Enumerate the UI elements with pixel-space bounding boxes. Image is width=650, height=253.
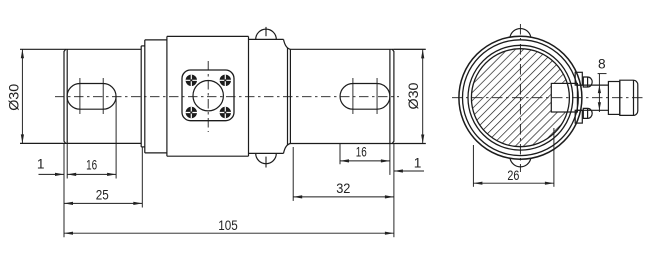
- dim 8 vertical line: [598, 74, 600, 112]
- connector flange plate: [551, 83, 577, 112]
- dim 8 leader tick: [598, 73, 607, 75]
- phi30 right ext bottom: [394, 143, 426, 145]
- ext line x390.6 below: [389, 144, 391, 175]
- phi30 right dim line: [422, 49, 424, 143]
- dim 32 line: [293, 196, 394, 198]
- right cap line: [389, 49, 391, 143]
- hatch boundary circle: [471, 49, 569, 147]
- screw C bottom-left: [186, 107, 197, 118]
- knob chamfer line: [633, 80, 635, 115]
- top right fillet: [284, 39, 291, 49]
- end knob: [620, 80, 638, 115]
- ext line left x473.4: [472, 145, 474, 187]
- dim 16 left line: [67, 173, 116, 175]
- ext line x142.3: [141, 147, 143, 208]
- left shaft bottom line (with phi30 extension): [20, 142, 141, 144]
- svg-text:1: 1: [414, 156, 422, 171]
- svg-text:105: 105: [218, 218, 238, 233]
- side view vertical centerline through plate: [207, 61, 209, 132]
- dim 32 arrows: [293, 195, 302, 198]
- bottom bolt head: [575, 108, 592, 123]
- dim 26 line: [473, 182, 554, 184]
- dim 105 line: [64, 232, 394, 234]
- svg-text:26: 26: [507, 168, 519, 183]
- bottom dome: [256, 153, 277, 163]
- svg-text:1: 1: [37, 157, 45, 172]
- dim 25 line: [64, 202, 142, 204]
- dim 8: [598, 74, 607, 112]
- left ring A bottom: [141, 146, 145, 148]
- top dome slot: [265, 27, 267, 36]
- top bolt head: [575, 72, 592, 87]
- barrel top line: [577, 84, 608, 86]
- dim 1 right line: [394, 170, 424, 172]
- barrel bottom line: [577, 109, 608, 111]
- screw A top-left: [186, 75, 197, 86]
- screw B top-right: [220, 75, 231, 86]
- dim 1 left arrow: [55, 173, 64, 176]
- dim 16 right line: [340, 160, 390, 162]
- left slot hole axis line 2: [102, 78, 104, 114]
- left cap line: [66, 49, 68, 143]
- third circle: [468, 45, 573, 150]
- second circle: [463, 40, 579, 156]
- ext line x67 below: [66, 143, 68, 178]
- top tab: [510, 29, 531, 38]
- ext line x394 below: [393, 144, 395, 238]
- square mounting plate: [182, 70, 234, 121]
- svg-text:25: 25: [96, 188, 109, 203]
- nut section bottom: [249, 152, 284, 154]
- svg-text:Ø30: Ø30: [406, 82, 421, 109]
- svg-text:8: 8: [598, 56, 606, 71]
- svg-text:32: 32: [336, 181, 350, 196]
- outer circle: [459, 36, 582, 159]
- arrowheads: [21, 49, 425, 235]
- bottom bolt nub seam: [587, 108, 589, 118]
- right slot obround: [340, 84, 390, 110]
- dim 26: [473, 128, 554, 187]
- ext line x116.6: [115, 97, 117, 179]
- dim 1 left line: [39, 173, 65, 175]
- phi30 left arrows: [21, 49, 24, 58]
- side view horizontal centerline: [55, 96, 399, 98]
- left slot hole axis line 1: [79, 78, 81, 114]
- bottom tab: [510, 158, 531, 167]
- central block right vertical: [248, 36, 250, 156]
- central block bottom: [167, 155, 249, 157]
- left ring B bottom: [145, 152, 167, 154]
- dim 16 right arrows: [340, 159, 349, 162]
- right slot hole axis line 2: [376, 78, 378, 114]
- top bolt nub seam: [587, 77, 589, 87]
- ext line x293.2: [292, 147, 294, 201]
- ext line x340: [339, 144, 341, 165]
- left ring A top: [141, 45, 145, 47]
- right shaft end vertical (chamfered): [392, 49, 394, 143]
- bottom dome slot: [265, 157, 267, 168]
- nut section top: [249, 38, 284, 40]
- dim 8 arrows: [598, 85, 601, 93]
- svg-text:16: 16: [86, 158, 97, 173]
- phi30 left dim line: [21, 49, 23, 143]
- vertical centerline right view: [519, 24, 521, 172]
- hatched core circle: [471, 49, 569, 147]
- ext line right x553.9: [553, 128, 555, 187]
- dim 26 arrows: [473, 182, 482, 185]
- dim 16 left arrows: [67, 173, 76, 176]
- right shaft bottom line (with phi30 extension): [290, 143, 425, 145]
- svg-text:16: 16: [356, 145, 367, 160]
- phi30 right arrows: [421, 49, 424, 58]
- left step ring A vertical: [140, 46, 142, 147]
- right ring line a: [287, 48, 289, 146]
- top dome: [256, 29, 277, 39]
- central bore circle: [193, 81, 223, 111]
- central block left vertical: [166, 36, 168, 156]
- dim 25 arrows: [64, 202, 73, 205]
- top bolt nub: [583, 77, 592, 87]
- bottom bolt nub: [583, 108, 592, 118]
- left ring B vertical: [144, 40, 146, 153]
- left shaft end vertical (chamfered): [64, 49, 66, 143]
- horizontal centerline right view: [452, 97, 645, 99]
- phi30 right ext top: [394, 48, 426, 50]
- bottom right fillet: [284, 144, 291, 154]
- ext line x64 below: [63, 143, 65, 237]
- mid ring: [608, 82, 619, 115]
- right shaft top line (with phi30 extension): [290, 48, 425, 50]
- right ring line b: [289, 49, 291, 143]
- dim 1 right arrow: [394, 169, 403, 172]
- left slot obround: [67, 84, 116, 110]
- dimension texts side view: [7, 82, 422, 233]
- left ring B top: [145, 39, 167, 41]
- dim 105 arrows: [64, 232, 73, 235]
- svg-text:Ø30: Ø30: [7, 83, 22, 110]
- right slot hole axis line 1: [352, 78, 354, 114]
- screw D bottom-right: [220, 107, 231, 118]
- left shaft top line (with phi30 extension): [20, 48, 141, 50]
- central block top: [167, 35, 249, 37]
